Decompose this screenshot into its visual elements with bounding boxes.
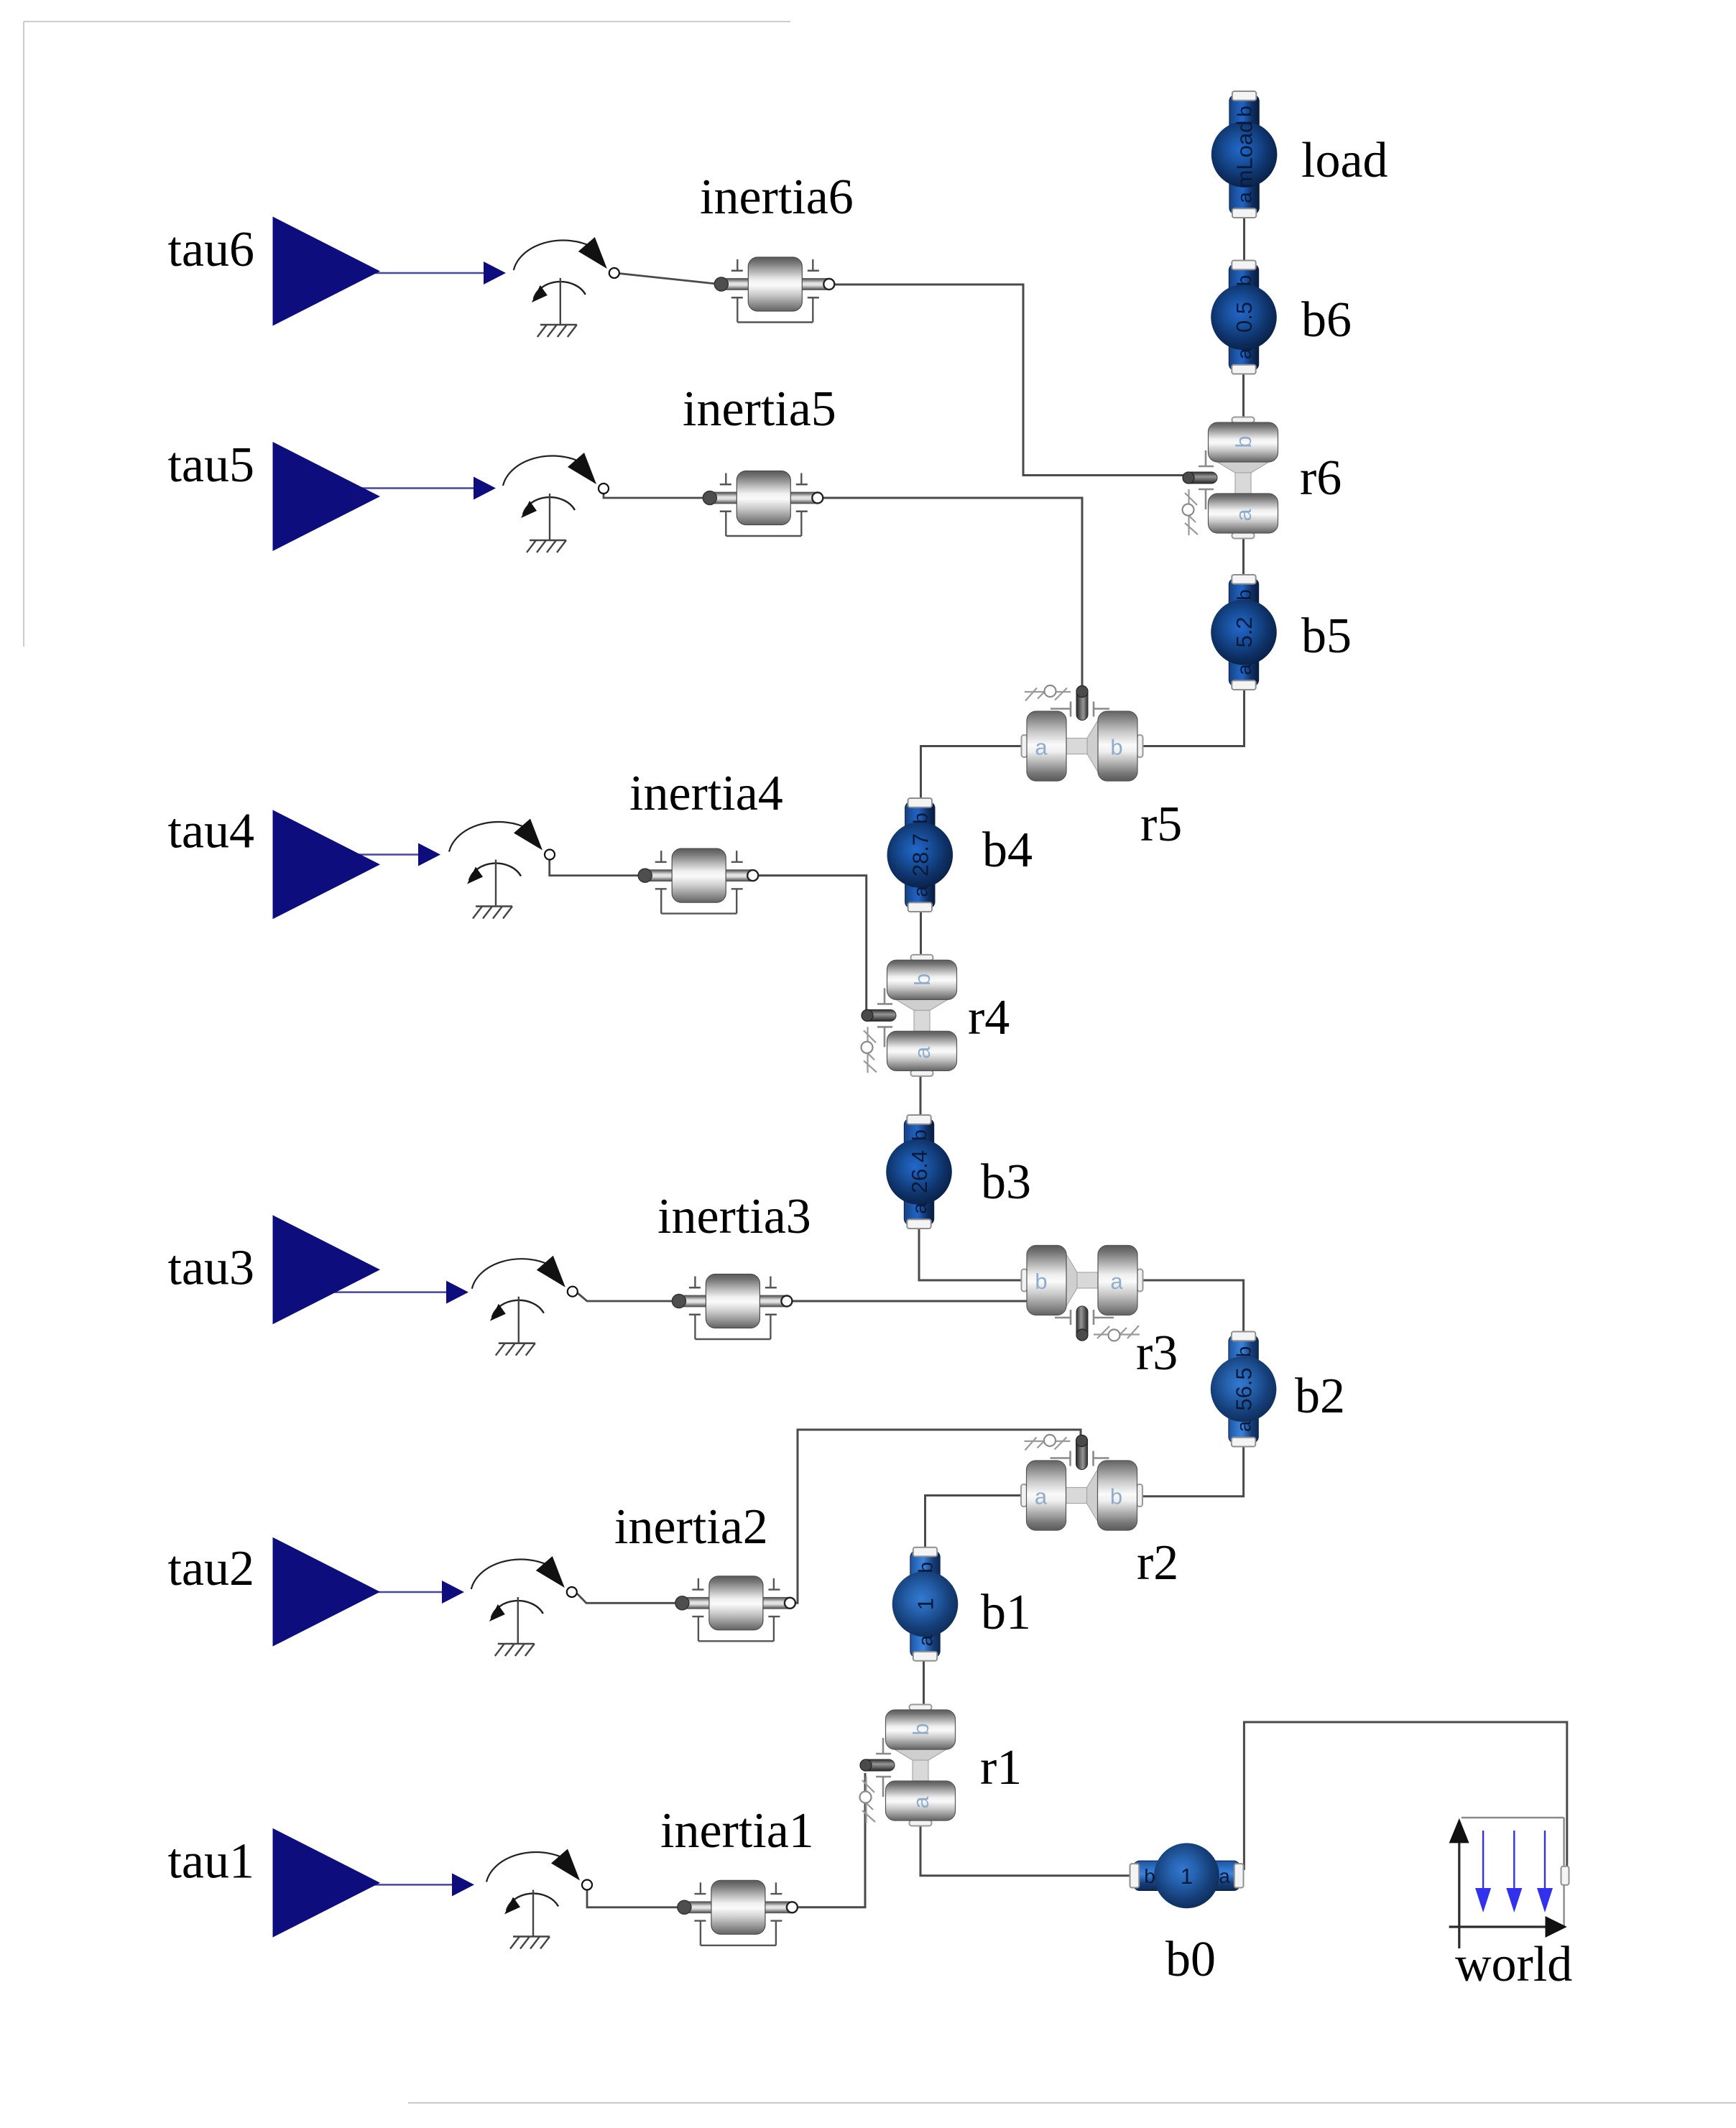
svg-text:r5: r5 — [1140, 797, 1182, 852]
svg-text:inertia4: inertia4 — [629, 766, 783, 821]
svg-text:a: a — [1110, 1269, 1123, 1294]
svg-text:a: a — [1234, 192, 1256, 203]
revolute joint r4 — [862, 955, 957, 1076]
svg-text:b: b — [908, 1723, 933, 1735]
wire r4.a to b3.b — [920, 1071, 922, 1116]
signal wire tau4 to torque actuator — [331, 853, 420, 856]
svg-text:a: a — [1231, 509, 1256, 522]
wire inertia6 to r6 axis — [834, 284, 1187, 476]
svg-text:tau2: tau2 — [167, 1541, 254, 1596]
svg-text:b: b — [1231, 435, 1256, 448]
svg-text:b: b — [908, 1129, 931, 1141]
wire r5.a to b4.b — [921, 746, 1024, 800]
svg-text:b: b — [909, 813, 931, 824]
svg-text:28.7: 28.7 — [908, 833, 933, 876]
svg-text:a: a — [908, 1796, 933, 1809]
svg-text:5.2: 5.2 — [1232, 616, 1257, 647]
svg-text:b2: b2 — [1295, 1369, 1345, 1424]
wire b1.a to r1.b — [923, 1660, 925, 1709]
inertia inertia4 — [638, 848, 758, 914]
wire torque3 flange to inertia3 — [578, 1293, 678, 1301]
wire inertia4 to r4 axis — [757, 876, 871, 1014]
svg-text:r3: r3 — [1136, 1326, 1178, 1381]
signal wire tau5 to torque actuator — [331, 487, 475, 489]
svg-text:26.4: 26.4 — [907, 1150, 932, 1193]
signal wire tau1 to torque actuator — [331, 1884, 453, 1886]
torque actuator of axis 6 — [514, 237, 619, 337]
svg-text:b1: b1 — [981, 1585, 1031, 1640]
wire inertia1 to r1 axis — [796, 1773, 865, 1907]
body b0 — [1130, 1843, 1244, 1908]
revolute joint r1 — [860, 1705, 956, 1826]
wire b2.a to r2.b — [1141, 1445, 1244, 1496]
svg-text:b6: b6 — [1301, 292, 1352, 348]
torque source triangle tau3 — [273, 1215, 381, 1324]
wire b4.a to r4.b — [920, 910, 922, 961]
torque source triangle tau5 — [273, 442, 381, 551]
svg-text:r2: r2 — [1137, 1535, 1178, 1591]
svg-text:b: b — [1110, 735, 1122, 760]
wire r6.a to b5.b — [1242, 534, 1245, 576]
inertia inertia3 — [672, 1275, 792, 1340]
svg-text:0.5: 0.5 — [1232, 302, 1257, 333]
svg-text:b: b — [1233, 1346, 1255, 1358]
svg-text:b: b — [1110, 1484, 1122, 1509]
svg-text:a: a — [1035, 1484, 1048, 1509]
torque source triangle tau6 — [273, 217, 381, 326]
svg-text:inertia6: inertia6 — [700, 170, 854, 225]
wire torque6 flange to inertia6 — [619, 274, 719, 284]
svg-text:b3: b3 — [981, 1155, 1031, 1210]
svg-text:tau4: tau4 — [167, 804, 254, 859]
revolute joint r2 — [1021, 1435, 1142, 1530]
wire frame border top — [24, 21, 790, 22]
svg-text:b: b — [1233, 589, 1255, 601]
wire inertia2 to r2 axis — [794, 1430, 1081, 1603]
wire inertia5 to r5 axis — [823, 498, 1082, 692]
wire torque4 flange to inertia4 — [550, 859, 644, 876]
svg-text:r1: r1 — [980, 1740, 1022, 1795]
svg-text:a: a — [910, 1046, 935, 1059]
svg-text:inertia2: inertia2 — [614, 1499, 768, 1555]
svg-text:tau1: tau1 — [167, 1834, 254, 1889]
wire frame border left — [23, 22, 24, 647]
wire torque1 flange to inertia1 — [587, 1889, 683, 1907]
svg-text:b: b — [1144, 1865, 1155, 1887]
svg-text:b4: b4 — [982, 823, 1033, 878]
wire r1.a to b0.b — [920, 1821, 1131, 1876]
svg-text:a: a — [1233, 1420, 1255, 1432]
signal wire tau6 to torque actuator — [331, 272, 485, 274]
svg-text:world: world — [1455, 1937, 1572, 1992]
torque source triangle tau4 — [273, 810, 381, 919]
svg-text:inertia1: inertia1 — [660, 1803, 814, 1859]
svg-text:a: a — [1233, 348, 1255, 359]
wire torque2 flange to inertia2 — [577, 1593, 681, 1603]
svg-text:a: a — [915, 1634, 937, 1646]
body b5 — [1211, 575, 1277, 690]
revolute joint r5 — [1022, 685, 1143, 781]
svg-text:1: 1 — [1181, 1864, 1193, 1889]
inertia inertia6 — [714, 257, 834, 323]
svg-text:tau5: tau5 — [167, 438, 254, 493]
torque actuator of axis 3 — [472, 1256, 578, 1356]
revolute joint r6 — [1183, 417, 1278, 539]
world frame icon — [1449, 1818, 1569, 1948]
svg-text:a: a — [1035, 735, 1048, 760]
body b2 — [1211, 1332, 1277, 1447]
wire b3.a to r3.b — [919, 1227, 1025, 1280]
torque actuator of axis 4 — [449, 819, 555, 919]
svg-text:tau6: tau6 — [167, 222, 254, 277]
svg-text:inertia3: inertia3 — [657, 1189, 811, 1244]
wire torque5 flange to inertia5 — [604, 493, 708, 498]
inertia inertia1 — [678, 1880, 798, 1946]
svg-text:1: 1 — [913, 1598, 938, 1610]
body b6 — [1211, 261, 1277, 374]
revolute joint r3 — [1022, 1246, 1143, 1341]
svg-text:r4: r4 — [968, 990, 1010, 1045]
wire b0.a to world frame — [1244, 1722, 1566, 1870]
torque actuator of axis 2 — [471, 1556, 577, 1656]
wire r3.a to b2.b — [1139, 1280, 1244, 1333]
svg-text:b: b — [910, 973, 935, 986]
body b4 — [887, 798, 954, 912]
svg-text:b: b — [1035, 1269, 1047, 1294]
wire inertia3 to r3 — [790, 1300, 1028, 1303]
body b3 — [886, 1115, 952, 1229]
torque source triangle tau2 — [273, 1537, 381, 1647]
svg-text:inertia5: inertia5 — [683, 381, 836, 437]
svg-text:a: a — [909, 886, 931, 897]
body load — [1211, 91, 1278, 218]
svg-text:mLoad: mLoad — [1232, 121, 1257, 189]
svg-text:load: load — [1301, 133, 1388, 188]
svg-text:56.5: 56.5 — [1232, 1367, 1257, 1410]
wire r2.a to b1.b — [925, 1496, 1023, 1550]
svg-text:tau3: tau3 — [167, 1241, 254, 1296]
svg-text:r6: r6 — [1300, 450, 1342, 506]
inertia inertia2 — [675, 1576, 795, 1642]
body b1 — [892, 1548, 959, 1661]
torque actuator of axis 1 — [486, 1849, 592, 1949]
svg-text:a: a — [1219, 1865, 1230, 1887]
inertia inertia5 — [703, 471, 823, 537]
svg-text:b: b — [915, 1562, 937, 1573]
torque actuator of axis 5 — [503, 453, 609, 552]
wire b5.a to r5.b — [1141, 688, 1245, 746]
wire load.a to b6.b — [1243, 216, 1245, 262]
wire b6.a to r6.b — [1242, 373, 1245, 422]
signal wire tau3 to torque actuator — [331, 1291, 448, 1293]
signal wire tau2 to torque actuator — [331, 1591, 443, 1593]
svg-text:a: a — [1233, 664, 1255, 675]
svg-text:b: b — [1233, 275, 1255, 287]
torque source triangle tau1 — [273, 1828, 381, 1938]
svg-text:b0: b0 — [1165, 1932, 1216, 1987]
svg-text:a: a — [908, 1203, 931, 1214]
svg-text:b: b — [1234, 106, 1256, 117]
svg-text:b5: b5 — [1301, 609, 1352, 664]
wire frame border bottom — [408, 2102, 1736, 2104]
